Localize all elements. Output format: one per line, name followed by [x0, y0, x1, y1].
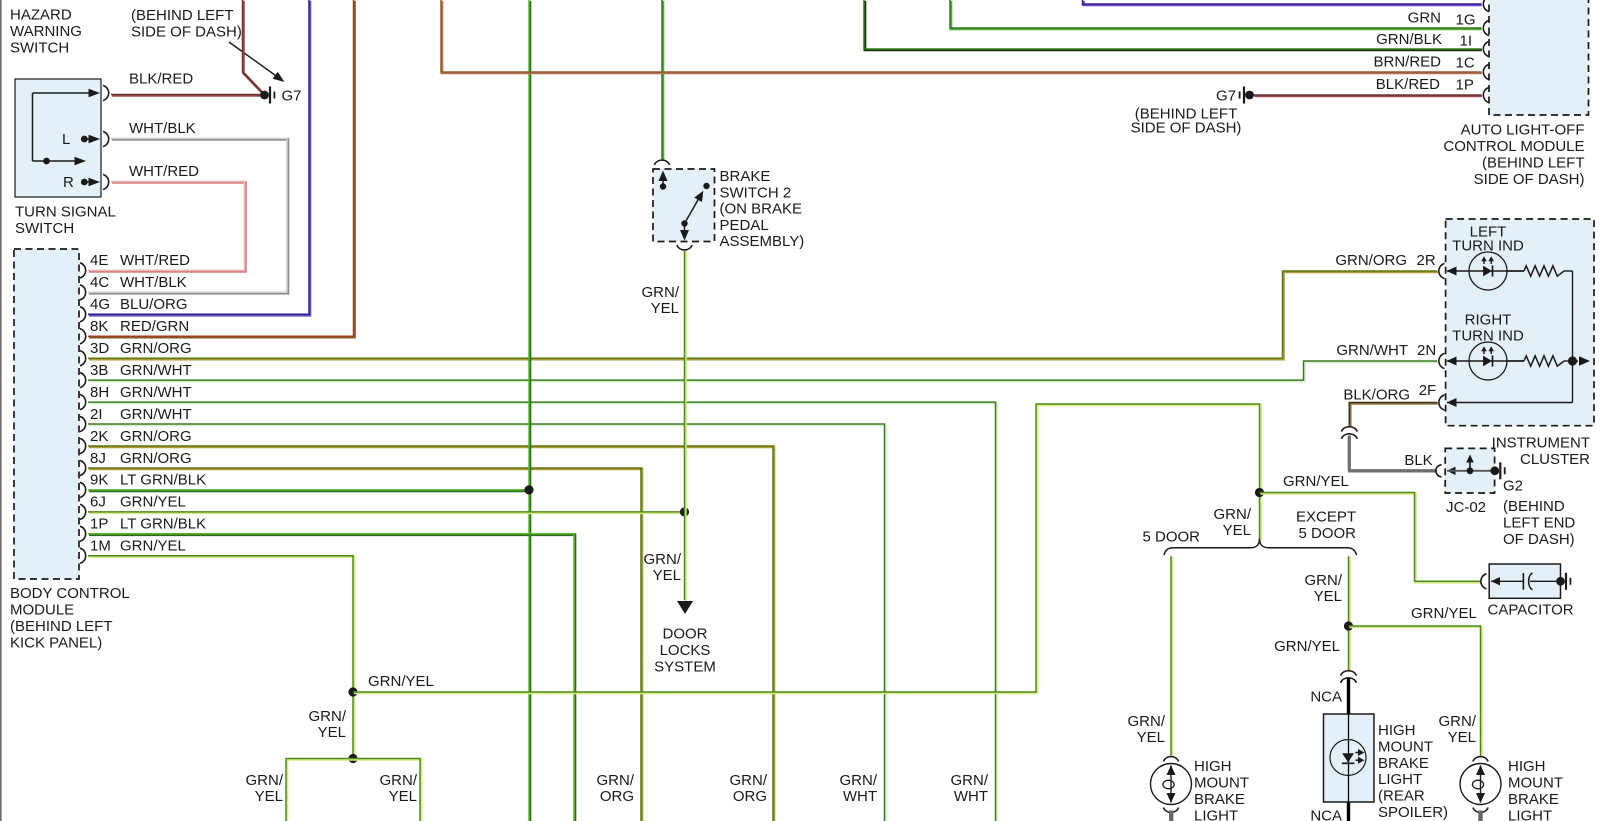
svg-text:GRN/YEL: GRN/YEL	[1274, 638, 1340, 655]
wire GRN/YEL trunk to right side	[353, 404, 1260, 693]
svg-text:YEL: YEL	[1448, 729, 1476, 746]
ground G2	[1490, 462, 1575, 548]
svg-text:ASSEMBLY): ASSEMBLY)	[720, 233, 805, 250]
junction connector JC-02	[1436, 448, 1495, 516]
svg-text:BLK/RED: BLK/RED	[129, 71, 193, 88]
svg-text:1C: 1C	[1456, 54, 1475, 71]
wire LT GRN/BLK BCM 9K	[88, 488, 530, 492]
svg-text:LEFT END: LEFT END	[1503, 515, 1575, 532]
wire GRN/ORG BCM 2K	[88, 446, 774, 821]
wire GRN/WHT BCM 2I	[88, 424, 885, 821]
svg-text:MOUNT: MOUNT	[1194, 775, 1249, 792]
high mount brake light (right)	[1460, 757, 1563, 821]
svg-text:HIGH: HIGH	[1508, 758, 1546, 775]
svg-text:SIDE OF DASH): SIDE OF DASH)	[1474, 171, 1585, 188]
svg-text:5 DOOR: 5 DOOR	[1143, 529, 1201, 546]
svg-text:1M: 1M	[90, 538, 111, 555]
svg-text:KICK PANEL): KICK PANEL)	[10, 635, 102, 652]
svg-text:(REAR: (REAR	[1378, 788, 1425, 805]
wire GRN/WHT BCM 8H	[88, 402, 996, 821]
svg-text:SYSTEM: SYSTEM	[654, 659, 716, 676]
svg-text:GRN/ORG: GRN/ORG	[120, 428, 192, 445]
svg-text:GRN/: GRN/	[644, 551, 682, 568]
svg-text:BRAKE: BRAKE	[1378, 755, 1429, 772]
svg-text:LIGHT: LIGHT	[1194, 808, 1238, 821]
body control module	[10, 249, 206, 652]
svg-text:5 DOOR: 5 DOOR	[1298, 525, 1356, 542]
wire BLK/RED turn signal switch to G7	[111, 93, 261, 97]
svg-text:GRN/: GRN/	[1305, 572, 1343, 589]
junction right lamp branch splice	[1344, 621, 1353, 630]
junction 9K splice	[524, 485, 533, 494]
svg-text:(BEHIND LEFT: (BEHIND LEFT	[1482, 155, 1585, 172]
svg-text:HAZARD: HAZARD	[10, 7, 72, 24]
wire WHT/BLK turn signal L to BCM 4C	[88, 120, 288, 293]
ground G7	[260, 87, 301, 105]
svg-text:2R: 2R	[1417, 252, 1436, 269]
high mount brake light (5 door)	[1151, 757, 1250, 821]
svg-text:LT GRN/BLK: LT GRN/BLK	[120, 472, 206, 489]
svg-text:6J: 6J	[90, 494, 106, 511]
svg-text:BLU/ORG: BLU/ORG	[120, 296, 188, 313]
svg-text:GRN/: GRN/	[1128, 713, 1166, 730]
wire GRN/YEL to high mount brake light (right)	[1349, 605, 1482, 756]
auto light-off control module	[1443, 0, 1588, 188]
wire BLK/RED hazard feed to G7	[129, 0, 265, 95]
junction 1M trunk splice	[348, 687, 357, 696]
wire LT GRN/BLK BCM 1P	[88, 534, 575, 821]
wire BLK to JC-02	[1348, 436, 1437, 471]
svg-text:BLK: BLK	[1404, 452, 1432, 469]
svg-text:EXCEPT: EXCEPT	[1296, 509, 1356, 526]
svg-text:R: R	[63, 174, 74, 191]
svg-text:8K: 8K	[90, 318, 108, 335]
svg-text:GRN/YEL: GRN/YEL	[368, 673, 434, 690]
capacitor	[1481, 564, 1574, 619]
left turn indicator	[1439, 224, 1573, 291]
ground G7 location note	[131, 7, 285, 82]
svg-text:GRN/: GRN/	[730, 772, 768, 789]
svg-text:MOUNT: MOUNT	[1378, 738, 1433, 755]
svg-text:GRN/WHT: GRN/WHT	[120, 362, 192, 379]
svg-text:GRN: GRN	[1408, 10, 1441, 27]
cluster ground row 2F	[1439, 395, 1573, 410]
wire LT GRN/BLK trunk vertical	[528, 0, 532, 821]
svg-text:(BEHIND LEFT: (BEHIND LEFT	[131, 7, 234, 24]
instrument cluster	[1446, 219, 1594, 468]
svg-text:LIGHT: LIGHT	[1508, 808, 1552, 821]
svg-text:GRN/YEL: GRN/YEL	[120, 538, 186, 555]
svg-text:MODULE: MODULE	[10, 602, 74, 619]
svg-text:HIGH: HIGH	[1378, 722, 1416, 739]
svg-text:YEL: YEL	[1137, 729, 1165, 746]
svg-text:BRAKE: BRAKE	[1194, 791, 1245, 808]
svg-text:WARNING: WARNING	[10, 23, 82, 40]
wire GRN/YEL 5-door branch	[1128, 556, 1172, 756]
svg-text:1G: 1G	[1456, 11, 1476, 28]
brake switch 2	[653, 160, 804, 250]
svg-text:SWITCH 2: SWITCH 2	[720, 184, 792, 201]
wire BRN/RED to auto light-off module 1C	[441, 0, 1482, 73]
door locks system arrow	[654, 601, 716, 676]
cluster internal bus	[1572, 271, 1574, 403]
svg-text:G7: G7	[282, 88, 302, 105]
svg-text:WHT/RED: WHT/RED	[120, 252, 190, 269]
svg-text:AUTO LIGHT-OFF: AUTO LIGHT-OFF	[1461, 122, 1585, 139]
high mount brake light (rear spoiler)	[1324, 714, 1449, 821]
svg-text:8J: 8J	[90, 450, 106, 467]
svg-text:GRN/: GRN/	[951, 772, 989, 789]
svg-text:9K: 9K	[90, 472, 108, 489]
svg-text:2I: 2I	[90, 406, 103, 423]
svg-text:GRN/WHT: GRN/WHT	[120, 384, 192, 401]
svg-text:2F: 2F	[1419, 382, 1437, 399]
svg-text:HIGH: HIGH	[1194, 758, 1232, 775]
svg-text:YEL: YEL	[255, 788, 283, 805]
wire GRN/ORG BCM 3D to cluster 2R	[88, 252, 1438, 359]
svg-text:GRN/YEL: GRN/YEL	[1411, 605, 1477, 622]
svg-text:L: L	[62, 131, 70, 148]
wire RED/GRN BCM 8K	[88, 0, 354, 337]
svg-text:SIDE OF DASH): SIDE OF DASH)	[1131, 120, 1242, 137]
junction GRN/YEL capacitor branch splice	[1255, 488, 1264, 497]
svg-text:3D: 3D	[90, 340, 109, 357]
wire GRN/YEL brake switch output	[642, 251, 686, 601]
svg-text:NCA: NCA	[1310, 689, 1342, 706]
svg-text:TURN SIGNAL: TURN SIGNAL	[15, 204, 116, 221]
inline connector NCA	[1341, 671, 1357, 683]
junction 6J splice	[680, 507, 689, 516]
wire GRN/YEL to capacitor	[1260, 473, 1482, 582]
svg-text:(BEHIND LEFT: (BEHIND LEFT	[10, 618, 113, 635]
wire GRN/YEL left branch	[246, 759, 421, 821]
wire GRN/YEL BCM 6J	[88, 510, 685, 514]
svg-text:GRN/: GRN/	[642, 284, 680, 301]
svg-text:GRN/YEL: GRN/YEL	[120, 494, 186, 511]
svg-text:4G: 4G	[90, 296, 110, 313]
svg-text:WHT/BLK: WHT/BLK	[120, 274, 187, 291]
svg-text:G2: G2	[1503, 478, 1523, 495]
inline connector BLK/ORG to BLK	[1341, 427, 1357, 439]
svg-text:SPOILER): SPOILER)	[1378, 804, 1448, 821]
svg-text:ORG: ORG	[600, 788, 634, 805]
svg-text:YEL: YEL	[389, 788, 417, 805]
wire GRN/YEL except-5-door branch	[1274, 556, 1349, 672]
svg-text:GRN/BLK: GRN/BLK	[1376, 31, 1442, 48]
svg-text:GRN/: GRN/	[597, 772, 635, 789]
wire GRN/BLK to auto light-off module 1I	[864, 0, 1482, 50]
wire WHT/RED turn signal R to BCM 4E	[88, 163, 245, 271]
wire GRN/WHT BCM 3B to cluster 2N	[88, 342, 1438, 381]
svg-text:SWITCH: SWITCH	[15, 220, 74, 237]
svg-text:BRAKE: BRAKE	[1508, 791, 1559, 808]
svg-text:WHT: WHT	[954, 788, 988, 805]
svg-text:CAPACITOR: CAPACITOR	[1488, 602, 1574, 619]
svg-text:BRAKE: BRAKE	[720, 168, 771, 185]
svg-text:GRN/: GRN/	[840, 772, 878, 789]
svg-text:4E: 4E	[90, 252, 108, 269]
svg-text:SWITCH: SWITCH	[10, 40, 69, 57]
wire PPL to auto light-off module	[1083, 0, 1482, 5]
svg-text:BLK/RED: BLK/RED	[1376, 76, 1440, 93]
right turn indicator	[1439, 312, 1578, 381]
svg-text:LOCKS: LOCKS	[660, 642, 711, 659]
svg-text:RIGHT: RIGHT	[1465, 312, 1512, 329]
svg-text:TURN IND: TURN IND	[1452, 328, 1524, 345]
svg-text:MOUNT: MOUNT	[1508, 775, 1563, 792]
svg-text:BLK/ORG: BLK/ORG	[1343, 387, 1410, 404]
svg-text:YEL: YEL	[318, 724, 346, 741]
svg-text:YEL: YEL	[1314, 588, 1342, 605]
svg-text:GRN/: GRN/	[309, 708, 347, 725]
wire BLK/RED G7 to auto light-off module 1P	[1254, 76, 1482, 96]
svg-text:GRN/: GRN/	[1439, 713, 1477, 730]
svg-text:ORG: ORG	[733, 788, 767, 805]
junction 1M split splice	[348, 754, 357, 763]
svg-text:GRN/YEL: GRN/YEL	[1283, 473, 1349, 490]
svg-text:INSTRUMENT: INSTRUMENT	[1492, 435, 1590, 452]
svg-text:YEL: YEL	[653, 567, 681, 584]
svg-text:WHT/RED: WHT/RED	[129, 163, 199, 180]
svg-text:DOOR: DOOR	[663, 626, 708, 643]
svg-text:2K: 2K	[90, 428, 108, 445]
svg-text:3B: 3B	[90, 362, 108, 379]
hazard warning switch label	[10, 7, 82, 57]
svg-text:WHT: WHT	[843, 788, 877, 805]
wire GRN/YEL BCM 1M	[88, 556, 354, 760]
svg-text:GRN/ORG: GRN/ORG	[1335, 252, 1407, 269]
svg-text:TURN IND: TURN IND	[1452, 238, 1524, 255]
svg-text:1P: 1P	[1456, 76, 1474, 93]
svg-text:YEL: YEL	[651, 300, 679, 317]
svg-text:(BEHIND: (BEHIND	[1503, 498, 1565, 515]
svg-text:OF DASH): OF DASH)	[1503, 531, 1575, 548]
svg-text:GRN/WHT: GRN/WHT	[120, 406, 192, 423]
svg-text:1P: 1P	[90, 516, 108, 533]
svg-text:4C: 4C	[90, 274, 109, 291]
svg-text:PEDAL: PEDAL	[720, 217, 769, 234]
svg-text:BODY CONTROL: BODY CONTROL	[10, 585, 130, 602]
wire GRN brake switch feed	[661, 0, 665, 160]
svg-text:CONTROL MODULE: CONTROL MODULE	[1443, 138, 1584, 155]
svg-text:BRN/RED: BRN/RED	[1373, 54, 1441, 71]
svg-text:8H: 8H	[90, 384, 109, 401]
wire GRN to auto light-off module 1G	[950, 0, 1482, 29]
splice brace 5-door / except 5-door	[1143, 509, 1357, 556]
wire GRN/ORG BCM 8J	[88, 468, 642, 821]
ground capacitor case	[1556, 573, 1571, 590]
svg-text:LT GRN/BLK: LT GRN/BLK	[120, 516, 206, 533]
svg-text:(ON BRAKE: (ON BRAKE	[720, 201, 803, 218]
svg-text:1I: 1I	[1460, 32, 1473, 49]
wire BLK/ORG cluster 2F	[1343, 382, 1438, 426]
svg-text:GRN/ORG: GRN/ORG	[120, 450, 192, 467]
ground G7 (right)	[1131, 87, 1254, 137]
svg-text:NCA: NCA	[1310, 808, 1342, 821]
wire NCA to rear spoiler lamp	[1310, 678, 1348, 821]
svg-text:GRN/ORG: GRN/ORG	[120, 340, 192, 357]
svg-text:RED/GRN: RED/GRN	[120, 318, 189, 335]
svg-text:GRN/: GRN/	[246, 772, 284, 789]
svg-text:JC-02: JC-02	[1446, 499, 1486, 516]
svg-text:SIDE OF DASH): SIDE OF DASH)	[131, 24, 242, 41]
svg-text:GRN/: GRN/	[1214, 506, 1252, 523]
junction cluster bus splice	[1568, 356, 1590, 366]
svg-text:2N: 2N	[1417, 342, 1436, 359]
svg-text:GRN/: GRN/	[380, 772, 418, 789]
svg-text:WHT/BLK: WHT/BLK	[129, 120, 196, 137]
wire BLU/ORG BCM 4G	[88, 0, 310, 315]
svg-text:GRN/WHT: GRN/WHT	[1336, 342, 1408, 359]
svg-text:YEL: YEL	[1223, 522, 1251, 539]
turn signal switch	[15, 79, 116, 237]
svg-text:G7: G7	[1216, 88, 1236, 105]
svg-text:LIGHT: LIGHT	[1378, 771, 1422, 788]
svg-text:CLUSTER: CLUSTER	[1520, 451, 1590, 468]
